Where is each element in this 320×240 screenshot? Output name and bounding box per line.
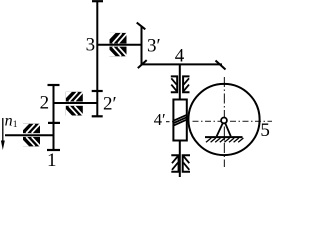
- bearing on shaft II lower block: [66, 106, 83, 116]
- svg-text:1: 1: [47, 150, 57, 171]
- bearing on shaft IV lower, right bracket: [183, 155, 190, 172]
- shaft I: [5, 134, 54, 136]
- ground line: [205, 136, 243, 138]
- bearing on shaft IV lower, left bracket: [171, 155, 178, 172]
- worm wheel 5: [188, 84, 259, 155]
- svg-text:3: 3: [86, 35, 96, 56]
- horizontal centerline through wheel: [193, 120, 273, 122]
- gear 4 bevel slash right: [216, 61, 226, 70]
- bearing on shaft I lower block: [23, 137, 40, 147]
- bearing on shaft IV upper, left bracket: [171, 76, 177, 92]
- gear 1 bottom cap: [47, 149, 60, 151]
- svg-text:5: 5: [260, 120, 270, 141]
- svg-text:2′: 2′: [103, 93, 117, 114]
- bearing on shaft III lower block: [110, 47, 127, 57]
- svg-text:4′: 4′: [154, 110, 166, 129]
- svg-text:n: n: [5, 112, 13, 129]
- gear 3 bar: [96, 1, 98, 91]
- shaft IV upper segment: [179, 64, 181, 100]
- bearing on shaft IV upper, right bracket: [183, 76, 189, 92]
- bearing on shaft I upper block: [23, 124, 40, 134]
- gear 2' bottom cap: [92, 115, 103, 117]
- shaft IV lower segment: [179, 141, 181, 178]
- bearing on shaft II upper block: [66, 92, 83, 102]
- ground hatch: [206, 138, 243, 142]
- gear 1 bar: [53, 123, 55, 150]
- shaft II: [54, 102, 98, 104]
- worm 4' thread lines: [174, 115, 187, 126]
- pivot pin: [221, 118, 227, 124]
- bearing on shaft III upper block: [110, 33, 128, 44]
- gear 3' bevel slash top: [137, 23, 146, 30]
- mesh cap gears 2'-3: [92, 90, 103, 92]
- gear 2 bar: [53, 85, 55, 123]
- gear 2' bar: [96, 92, 98, 116]
- gear 3 top cap: [92, 0, 103, 2]
- gear 4 bar: [141, 63, 223, 65]
- horizontal centerline left of worm: [166, 121, 173, 123]
- vertical centerline through wheel: [223, 77, 225, 167]
- svg-text:1: 1: [13, 120, 18, 130]
- svg-text:3′: 3′: [147, 35, 161, 56]
- bevel mesh slash 3'-4: [138, 60, 147, 68]
- speed arrow n1: [1, 118, 5, 150]
- shaft III: [97, 44, 141, 46]
- label n1: [5, 112, 18, 130]
- mesh cap gears 1-2: [48, 122, 60, 124]
- svg-text:4: 4: [175, 46, 185, 67]
- worm 4' body: [173, 100, 186, 141]
- gear 3' bar: [141, 27, 143, 65]
- svg-text:2: 2: [40, 93, 50, 114]
- pivot triangle: [217, 123, 231, 136]
- gear 2 top cap: [48, 84, 60, 86]
